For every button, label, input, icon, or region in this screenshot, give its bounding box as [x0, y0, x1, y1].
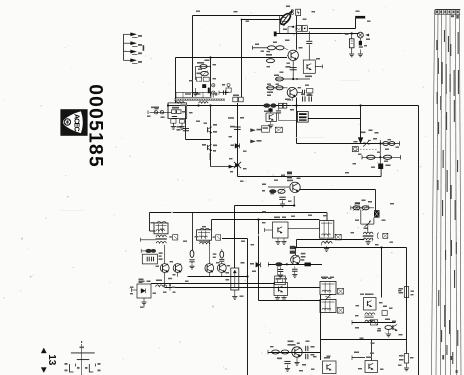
- output box with T11: [323, 361, 337, 374]
- node: AF rail junction: [286, 263, 288, 265]
- resistor R26 vertical oval: [190, 250, 194, 257]
- damping box with X mid: [275, 127, 282, 132]
- capacitor C9: [301, 90, 303, 96]
- node: RF box junction: [209, 56, 211, 58]
- svg-text:13: 13: [46, 354, 57, 366]
- wire: y276.8 rail: [188, 276, 248, 278]
- wire: T10 emitter: [296, 357, 298, 362]
- wire: detector diode bus x237: [237, 103, 239, 177]
- IF transformer can B: [197, 230, 212, 240]
- wire: rail y300 to IF can C: [259, 300, 321, 302]
- connector J1 pin 1: [124, 33, 131, 35]
- wire: driver row y144: [381, 143, 400, 145]
- RF tuning box: [168, 103, 187, 119]
- switch S1 contact right: [89, 364, 93, 372]
- coil L4 audio takeoff: [156, 285, 167, 287]
- signal arrow b: [251, 140, 256, 143]
- resistor box right: [307, 89, 313, 93]
- label smudges mixer: [274, 180, 278, 181]
- wire: x380 column: [379, 140, 381, 164]
- wire: volume control drop: [234, 206, 236, 269]
- IF transformer can A: [154, 223, 168, 234]
- label box can B: [216, 235, 221, 240]
- transistor T4 mixer: [290, 182, 300, 192]
- damping box C with X: [338, 288, 344, 294]
- resistor R10 oval: [276, 86, 283, 90]
- terminal tick y144: [399, 141, 401, 145]
- switch contact cluster: [226, 88, 231, 92]
- resistor R22 vertical lower: [406, 340, 408, 354]
- transistor T_rf2: [207, 145, 209, 150]
- band switch S1 (dash-dot axis): [81, 344, 83, 375]
- wire: osc column x296 top: [296, 16, 298, 50]
- wire: Q2 lead down: [177, 272, 179, 276]
- wire: L2 left drop: [279, 15, 281, 33]
- resistor box pair on rail: [279, 103, 283, 108]
- ground: IF box: [277, 238, 279, 241]
- resistor R14 oval: [272, 350, 280, 354]
- wire: T3 emitter down: [291, 97, 293, 101]
- capacitor C1 in box: [172, 116, 177, 118]
- AGC box with transistor T2: [303, 60, 315, 73]
- label smudges near input box: [181, 105, 187, 107]
- label 2 near rod: [212, 92, 214, 98]
- label: can C: [321, 277, 328, 279]
- wire: y118.4 to AF plug: [308, 118, 360, 120]
- wire: x210 transistor chain: [210, 106, 212, 167]
- node: rail junction at 198: [197, 104, 199, 106]
- wire: L2 feed b: [242, 19, 281, 21]
- ground: RF box: [195, 88, 197, 93]
- label: under rail: [264, 111, 269, 113]
- terminal tick y157: [400, 155, 402, 159]
- label smudges RF box: [198, 69, 202, 70]
- ferrite rod antenna L1: [174, 99, 225, 101]
- label: right of T15: [301, 253, 306, 255]
- resistor bank small boxes: [197, 77, 202, 81]
- tiny terminals above L2: [291, 10, 293, 12]
- label: left of T4: [262, 184, 266, 186]
- damping box with X: [335, 234, 341, 240]
- trimmer arrow on cell: [365, 222, 370, 227]
- label: T2 box: [305, 76, 312, 78]
- wire: vertical branch at RF box: [175, 58, 177, 104]
- node: rail junction at 210: [209, 104, 211, 106]
- wire: y66.5 in RF box: [196, 66, 211, 68]
- wire: T1 emitter: [292, 61, 294, 79]
- label: RF values: [197, 62, 204, 64]
- wire: vertical x320 osc column: [320, 295, 322, 360]
- wire: drop x270.5: [270, 108, 272, 113]
- wire: B+ top rail: [193, 15, 285, 17]
- resistor R12 oval: [269, 189, 276, 193]
- antenna coil winding a: [175, 102, 185, 104]
- wire: IF box input stub: [265, 229, 273, 231]
- label: above T10: [288, 341, 294, 343]
- resistor R5 oval: [268, 46, 276, 50]
- connector J1 pin 2: [124, 42, 131, 44]
- branch x192 resistor: [192, 213, 194, 251]
- AGC bus component boxes: [233, 97, 238, 102]
- bias cluster 2: [385, 326, 392, 330]
- wire: box drop x277.5: [277, 267, 279, 277]
- svg-text:0005185: 0005185: [84, 84, 105, 167]
- capacitor C5 bar: [208, 88, 210, 94]
- switch S1 wiper bar 2: [77, 359, 90, 361]
- wire: main horizontal rail y105: [168, 105, 419, 107]
- ground: detector: [143, 298, 145, 302]
- resistor R3 oval: [200, 65, 207, 69]
- capacitor C8 to rail: [308, 31, 310, 40]
- wire: stub right of rod: [219, 92, 229, 94]
- wire: RF box right edge: [210, 58, 212, 97]
- capacitor C19 below rail: [280, 267, 282, 270]
- resistor R11 vertical box: [351, 32, 353, 34]
- switch S1 wiper bar 1: [71, 352, 95, 354]
- resistor R24 dark oval on rail: [270, 103, 276, 107]
- label: above output row: [355, 202, 360, 204]
- label box can A: [173, 235, 178, 240]
- electrolytic C16 black: [378, 164, 383, 170]
- transistor T_rf emitter follower: [207, 127, 209, 132]
- wire: T1 base feed: [287, 54, 288, 56]
- wire: rail y322: [352, 322, 396, 324]
- transistor T1 converter: [288, 50, 298, 60]
- trimmer box top: [296, 9, 301, 15]
- IF transformer can C: [320, 282, 336, 295]
- label: cluster 2: [385, 319, 390, 321]
- capacitor C15 below: [284, 360, 290, 362]
- resistor R21 vertical on x406: [404, 287, 408, 298]
- detector box with D2: [137, 284, 151, 298]
- wire: T3 base rail: [266, 87, 288, 89]
- ground: R11: [349, 53, 354, 55]
- supply terminal bar: [355, 16, 365, 19]
- wire: x360 drop to plug: [359, 104, 361, 106]
- wire: antenna to tuning box: [167, 103, 169, 118]
- bias box mid: [262, 126, 270, 132]
- label: y276.8: [139, 279, 144, 281]
- speaker bracket: [377, 233, 378, 239]
- wire: vertical x406: [406, 248, 408, 340]
- capacitor C10 dark below lamp: [359, 38, 361, 41]
- wire: base rail to converter: [176, 57, 288, 59]
- wire: vertical drop to IF can A: [149, 213, 151, 232]
- label: C3: [177, 126, 182, 128]
- plug arrow into driver: [358, 138, 363, 144]
- volume potentiometer P1: [231, 268, 239, 290]
- wire: aerial input lead: [150, 111, 172, 113]
- small box x382: [382, 311, 387, 316]
- label: right of C16: [386, 165, 391, 167]
- capacitor C13: [189, 259, 194, 261]
- wire: Q3 Q4 drops: [208, 240, 210, 263]
- label smudges IF strip: [151, 222, 155, 223]
- resistor R8 oval: [276, 77, 284, 81]
- capacitor C4 black: [202, 84, 206, 88]
- capacitor C11 on AGC bus: [234, 126, 241, 128]
- label smudges input chain: [155, 108, 159, 109]
- label: x237 bus: [240, 117, 244, 119]
- diode D1: [235, 144, 240, 149]
- capacitor dark at rail end: [274, 32, 277, 37]
- wire: y239.8 stub left: [141, 239, 156, 241]
- resistor R17 oval: [367, 155, 375, 159]
- transistor T3: [287, 87, 297, 97]
- connector J1 pin 3: [124, 51, 131, 53]
- wire: detector output rail y212: [150, 212, 328, 214]
- branch x222 resistor: [220, 251, 224, 258]
- resistor R6 oval: [276, 46, 284, 50]
- wire: y120.5 link: [279, 120, 298, 122]
- tone box below: [275, 276, 286, 285]
- ground: AGC box 2: [270, 121, 272, 124]
- wire: Q1 lead down: [164, 272, 166, 287]
- wire: right vertical rail: [418, 106, 420, 375]
- wire: long rail y175 to AF stage: [238, 176, 382, 178]
- padder box 2: [302, 26, 307, 32]
- resistor R16a oval: [383, 142, 389, 146]
- wire: lamp to ground: [359, 50, 361, 54]
- ground: TR1: [367, 240, 369, 241]
- filter block dark striped: [297, 112, 308, 123]
- capacitor dark blob x270: [268, 108, 272, 111]
- stub terminal: [169, 285, 171, 291]
- transformer TR2: [365, 313, 375, 315]
- dial lamp LP1: [358, 32, 364, 38]
- wire: driver base drop: [375, 190, 377, 211]
- resistor R25 dark oval: [275, 262, 282, 266]
- label smudges volume osc: [241, 241, 245, 242]
- page marker 13 with arrows: [41, 348, 46, 353]
- label: right of tap box: [159, 252, 163, 254]
- wire: AGC diode rail x258: [258, 220, 260, 301]
- wire: TR1 secondary feed: [297, 239, 365, 241]
- scan streak: [294, 136, 324, 139]
- antenna coil winding b: [199, 102, 209, 104]
- title block grid (rotated revision table): [432, 10, 435, 375]
- wire: audio rail y283: [151, 283, 274, 285]
- AF driver box with T16: [274, 283, 288, 296]
- trimmer box on rail: [370, 320, 377, 325]
- wire: AGC return rail y219: [212, 219, 320, 221]
- resistor R20 oval: [362, 206, 369, 210]
- capacitor C17 on x278: [278, 108, 280, 110]
- label: below C10: [359, 46, 363, 48]
- wire: main rail y33.8: [275, 33, 359, 35]
- transistor Q3 IF: [205, 264, 214, 273]
- ground: can B1: [326, 246, 328, 248]
- ground: lamp: [358, 53, 363, 55]
- label: above driver: [361, 132, 366, 134]
- wire: rail y339: [321, 339, 407, 341]
- wire: IF box output: [288, 227, 320, 229]
- transistor Q2 IF: [173, 264, 182, 273]
- label: between Q1 Q2: [170, 261, 174, 262]
- ground: below C2: [171, 126, 176, 128]
- diode D3 on AGC bus: [256, 262, 261, 267]
- terminal circle pair: [212, 84, 215, 87]
- wire: vertical bus x247: [247, 239, 249, 375]
- label smudges ch2: [360, 294, 364, 295]
- label: right of Q3: [213, 253, 217, 254]
- wire: mixer collector rail y189: [299, 189, 375, 191]
- output box 2 with T14: [365, 361, 378, 373]
- AGC box 2 with transistor: [266, 113, 276, 121]
- transistor Q4 IF: [217, 264, 226, 273]
- wire: collector rail y143: [297, 143, 381, 145]
- title block rotated text entries: [444, 30, 445, 42]
- wire: L2 feed a: [266, 14, 281, 16]
- wire: converter emitter drop: [185, 106, 187, 140]
- capacitor C20 below rail: [294, 267, 296, 269]
- wire: T4 base rail: [268, 186, 289, 188]
- wire: padder rail y28.5: [309, 28, 356, 30]
- wire: osc rail y352: [268, 352, 321, 354]
- label smudges detector: [130, 287, 134, 288]
- padder box 1: [296, 26, 302, 32]
- resistor R2 in box: [177, 110, 181, 114]
- capacitor C18 dark pair: [302, 96, 304, 101]
- wire: audio rail y287: [165, 287, 320, 289]
- antenna tap box: [176, 92, 211, 97]
- label: above T4: [287, 172, 292, 175]
- signal arrow a: [251, 129, 256, 132]
- capacitor C2 trimmer below box: [171, 119, 176, 123]
- wire: can B1 center drop: [326, 238, 328, 243]
- ACEC logo (black square, white triangle, rotated ACEC text): [60, 109, 87, 136]
- wire: y357 stub: [352, 357, 365, 359]
- label: osc2: [277, 358, 282, 360]
- coupling box dark on rail: [305, 263, 311, 267]
- dashed link: [357, 148, 377, 150]
- switch S1 contact left: [70, 364, 74, 372]
- tap resistors dark: [145, 249, 151, 253]
- resistor R19 oval crossed: [353, 206, 360, 210]
- resistor R15 oval: [281, 350, 289, 354]
- wire: volume feed rail y205: [235, 205, 295, 207]
- transistor Q1 IF: [160, 264, 169, 273]
- diode D4 crossed on bus: [234, 162, 241, 168]
- tap network box: [142, 254, 157, 264]
- component below tap: [180, 120, 185, 124]
- label: near TR2: [355, 327, 359, 329]
- label smudges x237 bus 2: [229, 136, 233, 137]
- ground: T16 box a: [277, 296, 279, 298]
- capacitor C7: [290, 67, 297, 69]
- IF transformer can B1: [320, 221, 334, 239]
- oscillator coil L2 (slanted, dark): [278, 12, 292, 26]
- trimmer between cans: [325, 294, 331, 300]
- wire: vertical from top rail to antenna section: [192, 16, 194, 98]
- wire: x296 converter column: [296, 98, 298, 144]
- transistor T10 oscillator: [292, 347, 302, 357]
- driver box 2 with T13: [364, 298, 377, 311]
- trimmer X driver: [363, 140, 369, 146]
- node: rail at input box: [167, 104, 169, 106]
- wire: T15 collector up: [295, 248, 297, 256]
- wire: x195 drop: [195, 67, 197, 81]
- connector J1 bus wire: [123, 34, 125, 60]
- transistor T15 AF preamp: [291, 255, 300, 264]
- label smudges misc top: [196, 11, 200, 12]
- label: near pot: [241, 262, 245, 264]
- aerial input network: [154, 111, 157, 114]
- wire: output base row: [351, 207, 374, 209]
- ground: T16 box b: [283, 296, 285, 298]
- arrow on y166 stub: [229, 165, 233, 168]
- wire: detector input: [132, 289, 138, 291]
- wire: y139 link: [186, 139, 211, 141]
- wire: AF rail y264.3: [268, 264, 322, 266]
- coil rows below can A: [156, 235, 167, 237]
- resistor R4 oval crossed: [201, 71, 209, 75]
- arrow tick right of lamp: [366, 34, 369, 36]
- IF transformer can D: [320, 300, 336, 313]
- label smudges audio right: [354, 141, 358, 142]
- label smudges T1 cluster: [285, 40, 290, 42]
- resistor R7 oval: [267, 59, 275, 63]
- jack box with circle: [352, 147, 358, 152]
- wire: to TR1: [367, 224, 369, 232]
- capacitor C3 on emitter drop: [183, 128, 189, 130]
- wire: P1 lower: [234, 290, 236, 296]
- capacitor C12 below T4: [279, 196, 285, 198]
- label: under R9: [267, 92, 273, 94]
- resistor R23 dark oval on rail: [263, 103, 270, 107]
- resistor R18 oval: [383, 155, 391, 159]
- damping box D with X: [338, 307, 344, 313]
- node: AGC branch corner: [241, 19, 243, 21]
- label block above T15: [290, 246, 295, 249]
- svg-text:ACEC: ACEC: [72, 114, 79, 132]
- wire: can A drop: [164, 245, 166, 263]
- node: AGC return junction: [257, 218, 259, 220]
- wire: stub y166: [211, 166, 238, 168]
- label smudges T3 cluster: [267, 84, 271, 85]
- stub y26.8 with node: [288, 26, 293, 28]
- connector J1 pin 4: [124, 59, 131, 61]
- label: T16: [276, 278, 282, 280]
- IF amp box with T5: [273, 222, 289, 238]
- wire: AGC vertical bus: [241, 20, 243, 98]
- resistor R16b oval: [389, 142, 395, 146]
- wire: IF strip rail y238 corner: [222, 238, 248, 240]
- connector J1 label: [143, 45, 145, 51]
- label: osc: [286, 6, 290, 8]
- ground: branch x192: [189, 265, 194, 267]
- wire: driver channel 2 drop: [380, 246, 382, 248]
- wire: y79 emitter rail: [276, 78, 310, 80]
- resistor R13 oval: [278, 189, 285, 193]
- wire: driver row y157: [362, 156, 401, 158]
- scan noise specks: [150, 58, 151, 60]
- wire: feedback rail y248: [296, 247, 407, 249]
- capacitor C14 pair: [305, 346, 307, 351]
- wire: output cell box: [360, 210, 362, 225]
- resistor R1 in box: [172, 110, 176, 114]
- coil below can B: [200, 242, 211, 244]
- output transformer TR1: [363, 232, 373, 234]
- wire: T4 emitter: [293, 196, 295, 206]
- label: near can C top: [322, 278, 327, 280]
- resistor R9 oval: [267, 86, 274, 90]
- coil L3 below can: [322, 242, 333, 244]
- transistor T12 output (dark): [374, 210, 380, 217]
